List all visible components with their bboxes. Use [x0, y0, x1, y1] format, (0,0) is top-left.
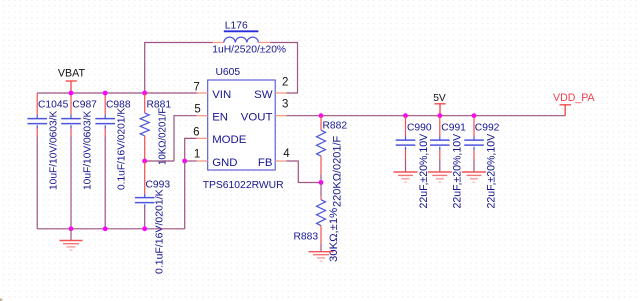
ground symbol C990	[394, 172, 418, 182]
capacitor C990	[396, 137, 416, 151]
svg-text:10KΩ/0201/F: 10KΩ/0201/F	[158, 108, 169, 165]
ground symbol left	[60, 229, 83, 250]
wire C1045 branch left vertical	[36, 93, 38, 115]
junction C988	[103, 91, 108, 96]
junction R881 top	[142, 91, 147, 96]
power symbol VDD_PA	[560, 105, 572, 116]
svg-text:GND: GND	[212, 157, 237, 169]
ground symbol R883	[309, 252, 334, 262]
svg-text:10uF/10V/0603/K: 10uF/10V/0603/K	[49, 110, 60, 190]
svg-text:SW: SW	[254, 89, 273, 101]
svg-text:R882: R882	[323, 121, 348, 132]
svg-text:C990: C990	[407, 122, 432, 133]
svg-text:MODE: MODE	[212, 134, 247, 146]
svg-text:C991: C991	[441, 122, 466, 133]
svg-text:22uF,±20%,10V: 22uF,±20%,10V	[486, 133, 498, 209]
svg-text:3: 3	[282, 99, 288, 111]
wire SW net	[270, 43, 297, 94]
svg-text:0.1uF/16V/0201/K: 0.1uF/16V/0201/K	[154, 189, 166, 274]
ground symbol C991	[428, 172, 452, 182]
svg-text:6: 6	[193, 127, 199, 139]
ground symbol C992	[462, 172, 486, 182]
svg-text:10uF/10V/0603/K: 10uF/10V/0603/K	[83, 110, 94, 190]
wire R882 lower lead	[320, 156, 322, 174]
wire VOUT bus	[286, 115, 565, 117]
wire C988 branch vertical	[104, 93, 106, 115]
wire inductor left stub	[213, 42, 224, 44]
wire ground bus	[37, 228, 185, 230]
junction C991 / 5V	[437, 113, 442, 118]
svg-text:C1045: C1045	[38, 99, 69, 110]
wire R883 lower lead	[320, 226, 322, 244]
svg-text:FB: FB	[258, 157, 273, 169]
wire FB net	[286, 161, 321, 183]
junction R881 bottom / C993	[142, 159, 147, 164]
pin stubs left	[197, 93, 208, 161]
svg-text:VIN: VIN	[212, 89, 231, 101]
svg-text:VBAT: VBAT	[58, 67, 86, 79]
resistor R882	[317, 130, 326, 156]
svg-text:C992: C992	[475, 122, 500, 133]
wire C993 upper lead	[144, 161, 146, 194]
wire C990 upper lead	[405, 116, 407, 137]
wire R881 lower lead	[144, 136, 146, 161]
junction C992	[472, 113, 477, 118]
svg-text:5: 5	[194, 103, 200, 115]
wire C992 lower lead	[473, 150, 475, 159]
svg-text:U605: U605	[216, 67, 241, 78]
svg-text:EN: EN	[212, 112, 228, 124]
svg-text:22uF,±20%,10V: 22uF,±20%,10V	[451, 133, 463, 209]
wire C988 lower lead	[104, 129, 106, 137]
capacitor C993	[135, 194, 155, 208]
wire R881 bottom to EN corner	[145, 160, 174, 162]
resistor R883	[317, 200, 326, 226]
resistor R881	[140, 113, 149, 136]
sheet corner mark	[0, 298, 1, 301]
capacitor C988	[95, 115, 115, 129]
svg-text:1: 1	[194, 149, 200, 161]
capacitor C992	[464, 137, 484, 151]
wire C993 lower lead	[144, 208, 146, 229]
svg-text:1uH/2520/±20%: 1uH/2520/±20%	[212, 45, 286, 56]
svg-text:4: 4	[283, 148, 290, 160]
svg-text:30KΩ,±1%: 30KΩ,±1%	[328, 208, 340, 262]
svg-text:0.1uF/16V/0201/K: 0.1uF/16V/0201/K	[117, 108, 128, 190]
capacitor C991	[430, 137, 450, 151]
svg-text:22uF,±20%,10V: 22uF,±20%,10V	[418, 133, 430, 209]
wire R881 upper lead	[144, 93, 146, 113]
wire R882 upper lead	[320, 116, 322, 131]
wire C992 upper lead	[473, 116, 475, 137]
svg-text:C993: C993	[146, 180, 171, 191]
junction R882 top	[319, 113, 324, 118]
IC U605 body	[208, 80, 276, 170]
capacitor C987	[61, 115, 81, 129]
junction ground bus C993	[142, 226, 147, 231]
wire EN net	[174, 116, 197, 161]
svg-text:L176: L176	[225, 20, 248, 31]
wire inductor branch riser	[145, 43, 213, 93]
wire GND node down to ground bus	[184, 161, 186, 229]
svg-text:TPS61022RWUR: TPS61022RWUR	[203, 180, 284, 191]
wire MODE net	[185, 138, 197, 161]
inductor L176	[224, 37, 259, 42]
junction ground bus C988	[103, 226, 108, 231]
wire GND short	[185, 160, 197, 162]
pin stubs right	[275, 93, 286, 161]
svg-text:2: 2	[282, 77, 288, 89]
wire VIN top bus	[37, 92, 197, 94]
junction FB/R882/R883	[319, 180, 324, 185]
junction GND node	[182, 159, 187, 164]
capacitor C1045	[27, 115, 47, 129]
svg-text:VOUT: VOUT	[241, 112, 273, 124]
power symbol VBAT	[66, 81, 77, 92]
wire C990 lower lead	[405, 150, 407, 159]
svg-text:220KΩ/0201/F: 220KΩ/0201/F	[332, 136, 344, 207]
power symbol 5V	[434, 104, 445, 115]
svg-text:7: 7	[193, 81, 199, 93]
wire C1045 lower lead	[36, 129, 38, 137]
svg-text:C987: C987	[72, 99, 97, 110]
wire C991 lower lead	[439, 150, 441, 159]
wire C987 lower lead	[70, 129, 72, 137]
L176 underline	[224, 30, 259, 32]
wire C987 branch vertical	[70, 93, 72, 115]
svg-text:R883: R883	[294, 231, 319, 242]
junction ground bus C987	[69, 226, 74, 231]
junction C990	[403, 113, 408, 118]
junction VBAT/C987	[69, 91, 74, 96]
wire R883 upper lead	[320, 183, 322, 197]
wire C991 upper lead	[439, 116, 441, 137]
svg-text:5V: 5V	[433, 93, 446, 104]
wire inductor right stub	[258, 42, 270, 44]
svg-text:VDD_PA: VDD_PA	[553, 92, 596, 104]
